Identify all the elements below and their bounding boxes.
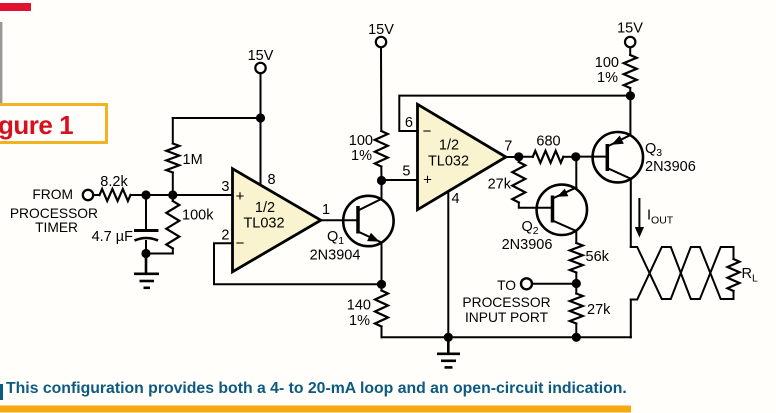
node F junction dot (Q1 emitter / feedback / 140) (377, 280, 386, 289)
gray column rule (left edge) (0, 22, 2, 104)
svg-text:INPUT PORT: INPUT PORT (465, 310, 549, 325)
input terminal (from processor timer) (83, 190, 93, 200)
wire: 15V down to 100 ohm resistor (380, 48, 382, 132)
15V supply terminal (right, above 100 ohm) (625, 37, 635, 47)
red page-corner bar (top left) (0, 3, 31, 11)
wire: U1a output pin 1 to Q1 base (321, 219, 358, 221)
svg-text:140: 140 (347, 298, 371, 314)
svg-text:7: 7 (504, 139, 512, 155)
svg-text:4.7 µF: 4.7 µF (92, 229, 134, 245)
wire: Q3 emitter up to node H (629, 96, 631, 135)
wire: node E to U1b pin 5 (382, 179, 418, 181)
ground (main rail) (437, 337, 460, 367)
wire: Q1 collector up to node E (381, 181, 383, 199)
svg-text:1/2: 1/2 (255, 200, 275, 216)
node B junction dot (8.2k / 4.7uF) (141, 190, 150, 199)
wire: capacitor to node D (145, 241, 147, 254)
wire: Q2 collector down to 56k (575, 231, 577, 243)
15V supply terminal (left, above op-amp U1a pin 8) (255, 63, 265, 73)
node I junction dot (680 / Q2 emitter / Q3 base) (571, 152, 580, 161)
svg-text:100: 100 (349, 133, 373, 149)
svg-text:2: 2 (221, 228, 229, 244)
resistor 27k (U1b output to Q2 base) (518, 157, 520, 162)
svg-text:680: 680 (536, 134, 560, 150)
node L junction dot (rail / 27k) (572, 333, 581, 342)
ground rail wire (382, 336, 631, 338)
wire: 15V terminal down to node A (260, 74, 262, 119)
svg-text:TL032: TL032 (243, 216, 284, 232)
svg-text:PROCESSOR: PROCESSOR (10, 206, 98, 221)
twisted-pair loop conductor A (631, 247, 734, 299)
wire: node B to node C (146, 194, 173, 196)
resistor 140 1% (current sense) (381, 284, 383, 290)
transistor Q1 2N3904 (NPN) (343, 196, 393, 246)
node A junction dot (15V rail / 1M / pin 8) (256, 113, 265, 122)
wire: node C to U1a pin 3 (173, 194, 233, 196)
port terminal (to processor input port) (521, 278, 532, 289)
node D junction dot (cap / 100k / ground) (141, 249, 150, 258)
svg-text:27k: 27k (488, 177, 512, 193)
wire: U1b pin 6 up and over to node H (feedback sense) (399, 96, 630, 131)
svg-text:+: + (236, 188, 245, 205)
resistor 680 (Q3 base series) (519, 156, 533, 158)
svg-text:27k: 27k (587, 302, 611, 318)
svg-text:TIMER: TIMER (35, 220, 78, 235)
resistor 100 1% (Q1 collector load) (375, 131, 388, 167)
IOUT current arrow (638, 198, 640, 228)
svg-text:8.2k: 8.2k (100, 174, 128, 190)
svg-text:8: 8 (268, 172, 276, 188)
svg-text:This configuration provides bo: This configuration provides both a 4- to… (6, 380, 627, 397)
node E junction dot (100 / Q1 collector / U1b pin 5) (377, 176, 386, 185)
twisted-pair loop conductor B (631, 247, 734, 300)
Figure 1 callout box (0, 105, 107, 143)
svg-text:56k: 56k (586, 249, 610, 265)
transistor Q3 2N3906 (PNP) (593, 132, 643, 182)
node J junction dot (56k / 27k / port) (572, 279, 581, 288)
svg-text:100: 100 (595, 55, 619, 71)
wire: node B down to capacitor (145, 195, 147, 229)
node K junction dot (rail / pin 4 / ground) (444, 333, 453, 342)
wire: U1b pin 4 down to ground rail (447, 193, 449, 338)
svg-text:TL032: TL032 (428, 154, 469, 170)
svg-text:1: 1 (322, 202, 330, 218)
resistor 100k (input shunt) (172, 195, 174, 201)
wire: node D to 100k bottom (146, 253, 173, 255)
wire: node A left to 1M resistor top (173, 117, 261, 119)
svg-text:−: − (236, 235, 245, 252)
svg-text:1%: 1% (351, 148, 372, 164)
wire: 8.2k to node B (131, 194, 147, 196)
wire: node A down to op-amp U1a pin 8 (260, 118, 262, 187)
wire: node I to Q3 base (576, 156, 608, 158)
node G junction dot (pin 7 / 680 / 27k) (514, 152, 523, 161)
svg-text:15V: 15V (368, 22, 394, 38)
svg-text:1%: 1% (349, 313, 370, 329)
svg-text:1%: 1% (597, 70, 618, 86)
wire: Q1 emitter down to node F (381, 243, 383, 285)
svg-text:−: − (423, 123, 432, 140)
svg-text:PROCESSOR: PROCESSOR (462, 295, 550, 310)
svg-text:100k: 100k (182, 208, 214, 224)
yellow rule under caption (0, 406, 631, 413)
15V supply terminal (middle, above 100 ohm) (376, 37, 386, 47)
resistor 100 1% (Q3 emitter) (629, 47, 631, 55)
svg-text:FROM: FROM (32, 187, 73, 202)
resistor 1M (U1a + input pull-up) (172, 118, 174, 144)
node H junction dot (100 / feedback / Q3 emitter) (626, 91, 635, 100)
svg-text:1/2: 1/2 (439, 138, 459, 154)
svg-text:TO: TO (497, 278, 516, 293)
wire: port terminal to node J (533, 283, 576, 285)
node C junction dot (1M / 100k / pin 3) (168, 190, 177, 199)
svg-text:15V: 15V (248, 48, 274, 64)
svg-text:3: 3 (221, 179, 229, 195)
svg-text:2N3904: 2N3904 (310, 248, 361, 264)
resistor 8.2k (input series) (93, 194, 100, 196)
transistor Q2 2N3906 (PNP) (537, 185, 587, 235)
wire: loop return down to ground rail (630, 300, 632, 338)
op-amp U1a 1/2 TL032 (233, 169, 321, 272)
svg-text:4: 4 (452, 191, 460, 207)
svg-text:+: + (423, 172, 432, 189)
svg-text:2N3906: 2N3906 (502, 237, 553, 253)
wire: U1b output pin 7 to node G (506, 156, 519, 158)
svg-text:1M: 1M (183, 152, 203, 168)
svg-text:2N3906: 2N3906 (645, 159, 696, 175)
wire: Q2 emitter up to node I (575, 157, 577, 188)
resistor 56k (Q2 collector / divider) (570, 243, 583, 273)
capacitor C1 4.7 uF (134, 229, 159, 232)
wire: Q3 collector down to loop (630, 179, 632, 247)
resistor RL (remote load) (733, 247, 735, 259)
resistor 27k (divider lower) (575, 284, 577, 294)
svg-text:6: 6 (405, 115, 413, 131)
wire: U1a pin 2 feedback to Q1 emitter node (214, 243, 382, 284)
teal page-edge tick (bottom left) (0, 384, 3, 400)
svg-text:15V: 15V (617, 21, 643, 37)
svg-text:5: 5 (402, 164, 410, 180)
svg-text:gure 1: gure 1 (0, 110, 73, 140)
ground (input network) (134, 254, 159, 288)
op-amp U1b 1/2 TL032 (418, 104, 506, 209)
